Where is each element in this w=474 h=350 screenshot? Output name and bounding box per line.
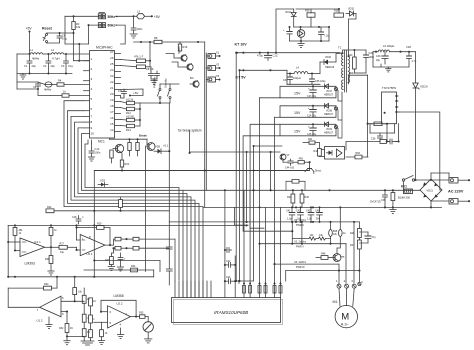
svg-text:10: 10 [91,132,95,136]
svg-text:10: 10 [105,332,108,335]
svg-text:HER107: HER107 [324,93,334,96]
capacitor C39 [381,189,388,208]
opto out row2 [334,107,337,110]
wire primary to TNY [349,75,351,84]
svg-text:5: 5 [110,321,112,325]
wire net8 outer [90,140,175,280]
wire U1.2 output left [8,306,39,308]
diode VD15 [346,8,356,17]
wire col row y281 [236,280,253,282]
svg-text:VD16: VD16 [325,56,332,59]
wire VT5 collector up [339,207,341,253]
svg-text:8: 8 [89,235,91,239]
capacitor C26 [283,26,292,41]
wire opto col 1 [235,53,237,281]
wire U2.2 output [130,316,139,318]
svg-text:10µ: 10µ [60,251,65,254]
wire 5V box outline [287,64,315,84]
wire U2.1 out row [110,244,114,246]
resistor column A r2 [82,303,89,322]
svg-text:470µ: 470µ [257,54,263,58]
svg-text:C3: C3 [61,64,65,68]
svg-text:50Hz +: 50Hz + [108,15,118,19]
shunt reg U6 TL431 [297,27,305,41]
resistor R58 zigzag [316,234,331,240]
wire secondary top to C34 [343,50,367,53]
wire transformer taps to rows [336,86,343,101]
divider R46 [350,222,361,238]
module top pin wires [175,281,211,298]
resistor R23 vertical above rail [119,197,123,211]
wire AC top to bridge [430,173,432,179]
junction caps on rails [291,206,293,208]
divider sense wires [291,221,303,245]
svg-text:49: 49 [70,327,73,330]
resistor R28 down [45,247,53,271]
svg-text:10k: 10k [78,291,83,294]
svg-text:U1.2: U1.2 [37,319,43,323]
power +5V arrow [151,15,153,17]
svg-text:10k: 10k [333,233,338,236]
wire U2.1 feedback loop [104,228,110,246]
svg-text:C46: C46 [315,210,320,213]
resistor column B r2 [89,306,95,323]
wire bus net5 [78,128,187,298]
svg-text:1k: 1k [63,90,66,94]
wire caps to rail [150,67,152,71]
svg-text:Speed: Speed [177,46,181,54]
svg-text:15V: 15V [294,91,301,95]
main rail y170.5 [94,170,309,172]
svg-text:C4: C4 [33,85,37,89]
svg-text:R44: R44 [287,196,292,199]
staircase net d [247,152,254,225]
ground bottom left [64,336,70,344]
capacitor C19 below out [118,253,126,267]
svg-text:K01: K01 [401,185,407,189]
wire loop around resistors [139,103,141,126]
wire x270.6 down [270,152,272,191]
svg-text:C1C: C1C [273,54,278,58]
capacitor C4 row2 [33,82,41,89]
resistor R33 below out [105,248,114,266]
svg-text:PWR U: PWR U [296,224,304,227]
diode VD14 [285,9,296,27]
svg-text:R41: R41 [308,138,313,141]
resistor column A r1 [82,288,90,303]
rail y241 [94,240,169,242]
svg-text:PWR W: PWR W [296,266,305,269]
capacitor C41 below rail [286,207,295,222]
connector AC N [449,199,470,205]
resistor R19 [136,139,139,156]
IC U4 IRAMS10UP60B body [172,298,281,323]
wire U2.2 plus input [91,321,108,323]
resistor R3 pullup [72,15,81,33]
capacitor C37 fb [386,139,399,144]
capacitor C2 [43,54,55,74]
wire row2 to col W [275,116,281,118]
svg-text:R16: R16 [183,45,188,49]
svg-text:22: 22 [110,80,114,84]
svg-text:L1: L1 [30,48,33,52]
capacitor C12 [89,143,101,157]
wire feedback bottom [290,40,330,42]
resistor column A r3 [82,322,90,341]
wire VT5 emitter down [336,262,338,267]
ground below dc minus [390,207,396,213]
wire TNY bottom legs [386,124,388,142]
svg-text:1,0µ: 1,0µ [287,218,292,221]
wire phase V to motor [258,241,346,283]
svg-text:R28: R28 [45,258,50,261]
connector X3 [206,74,220,82]
svg-text:2: 2 [344,279,346,283]
op-amp U2.1 [80,235,105,257]
svg-text:LM393: LM393 [25,262,35,266]
svg-text:+: + [283,29,285,32]
capacitor C14 row2 [307,105,317,118]
svg-text:R45: R45 [305,196,310,199]
capacitor C35 [310,73,327,85]
svg-text:A12 B: A12 B [126,97,133,101]
svg-text:100k: 100k [349,72,355,75]
motor M1 [335,305,357,327]
wire U1.2 left vertical [7,288,9,307]
svg-text:HER108: HER108 [325,66,335,69]
transistor VT3 break [190,76,199,88]
wire reset to IC [73,33,75,61]
wire LM393 inputs [8,241,20,243]
resistor R20 [110,149,113,164]
connector X1 [206,51,220,59]
svg-text:C35 100µ: C35 100µ [315,80,326,83]
svg-text:10k: 10k [76,25,81,29]
capacitor C8 C9 pair [146,67,160,79]
wire bus net4 [75,122,192,297]
svg-text:7: 7 [91,114,93,118]
ground U1.2 [46,314,52,329]
diode VD18 row2 [324,104,334,116]
wire driver mid row [283,161,298,163]
resistor R57 zigzag [292,234,316,240]
wire +5 run [116,15,134,17]
wire 10V rail [237,52,340,54]
resistor R42 [314,143,322,157]
resistor R27 series out [59,242,77,254]
svg-text:4: 4 [120,323,122,327]
resistor column B r1 [89,294,97,306]
resistor column C [100,322,108,340]
svg-text:23: 23 [110,74,114,78]
svg-text:1: 1 [82,237,84,241]
capacitor C31 [283,73,293,85]
svg-text:L2: L2 [51,48,54,52]
wire x94.3 down [93,212,95,277]
wire driver top [190,151,280,153]
svg-text:R38: R38 [334,10,339,13]
rail y271.5 [90,271,160,273]
transistor VT4 break drive [139,134,155,151]
resistor R41 [303,138,319,144]
svg-text:n: n [93,318,95,321]
wire opto return up [367,124,369,157]
svg-text:100µH: 100µH [293,76,301,80]
svg-text:PWR V: PWR V [296,246,304,249]
wire right drop x153.7 [153,270,155,277]
rail mid1 y190.3 [183,189,420,191]
capacitor C23 bootstrap [224,276,236,284]
wire opto col 2 [239,70,241,281]
switch FWD [153,76,162,98]
svg-text:15V: 15V [294,111,301,115]
capacitor C30 [376,52,388,64]
svg-text:+5V: +5V [26,27,33,31]
svg-text:C36: C36 [371,138,376,141]
capacitor C13 row1 [307,85,317,98]
transistor VT1 [178,55,187,62]
resistor R44 between rails [287,190,295,207]
svg-text:n: n [82,216,84,219]
svg-text:MC1: MC1 [98,140,105,144]
svg-text:U/1 1: U/1 1 [34,240,41,244]
rail com y270.6 [286,270,361,283]
15V row 2 box [280,106,336,118]
connector X2 [206,63,220,71]
resistor R5 [50,90,90,98]
resistor R50b [286,180,305,191]
svg-text:7: 7 [126,313,128,317]
svg-text:C39: C39 [381,199,386,202]
svg-text:4MHz: 4MHz [44,88,52,92]
resistor column B r3 [89,323,93,341]
svg-text:C1: C1 [24,64,28,68]
wire rows left edge [279,86,281,98]
rail y225.4 [8,224,246,226]
svg-text:VD3: VD3 [100,179,106,183]
transistor VT8 [113,139,124,153]
svg-text:AC 220V: AC 220V [448,190,464,194]
svg-text:22µ: 22µ [376,59,381,62]
resistor R43 fb [380,140,387,144]
svg-text:1000: 1000 [369,56,375,59]
transformer T1 [338,46,350,93]
svg-text:MC3PHAC: MC3PHAC [96,46,113,50]
capacitor C36 below TNY [370,131,395,142]
wire bus net7 [85,143,179,298]
resistor R51 below TNY [370,122,388,133]
resistor R25 [13,225,23,250]
svg-text:10: 10 [93,300,96,303]
wire bus net2 [68,111,200,298]
wire IC bottom row [110,138,148,140]
svg-text:VT: VT [287,154,291,157]
15V row 3 box [280,124,336,136]
svg-text:TNY275PN: TNY275PN [382,86,396,90]
svg-text:VD21: VD21 [427,189,434,193]
svg-text:15: 15 [110,122,114,126]
capacitor C15 row3 [307,123,317,136]
pin numbers left [91,57,95,136]
resistor R55 on x330 [329,221,338,245]
svg-text:22p: 22p [50,64,55,68]
wire break diode out [166,150,169,152]
svg-text:VD15: VD15 [348,8,355,11]
svg-text:19: 19 [110,98,114,102]
capacitor C1 [24,54,36,74]
wire HV dc to TNY [400,112,442,190]
wire osc row [17,53,30,55]
svg-text:15V: 15V [294,129,301,133]
bridge rectifier VD21 [420,179,442,201]
resistor R48 base [316,252,331,259]
ground osc rail [20,74,26,80]
pin numbers right [110,50,114,132]
svg-text:18: 18 [110,104,114,108]
svg-text:HER107: HER107 [324,131,334,134]
wire IC bottom to C12 [91,140,93,143]
capacitor C6 [57,33,68,42]
wire feedback row [294,26,329,28]
svg-text:4.7µ: 4.7µ [412,60,417,63]
wire top rail to primary [276,9,296,53]
inductor L6 [373,44,416,53]
svg-text:L3: L3 [137,10,140,14]
capacitor C46 below rail [315,207,322,222]
svg-text:5: 5 [91,97,93,101]
wire bus vertical x205 [204,42,206,207]
wire snubber gnd [310,26,312,28]
wire emitter to R21 [121,152,122,156]
svg-text:1: 1 [91,57,93,61]
wire bus net1 [64,101,203,298]
svg-text:47µ: 47µ [372,236,377,239]
shunt resistor pair phase V [258,98,267,298]
resistor R12 [121,107,141,115]
wire bus net6 [82,134,184,298]
svg-text:8: 8 [91,120,93,124]
svg-text:C2: C2 [43,64,47,68]
rail y221.9 [169,221,359,223]
svg-text:BC: BC [190,76,194,80]
svg-text:R35: R35 [139,312,144,315]
opto out row3 [334,125,337,128]
capacitor C29 470u [257,52,278,61]
svg-text:B1/8A 250: B1/8A 250 [398,196,411,200]
svg-text:4R3: 4R3 [299,158,304,161]
svg-text:R30: R30 [44,283,49,286]
meter PA1 [143,317,153,339]
svg-text:KT 10V: KT 10V [235,43,248,47]
svg-text:100n: 100n [95,151,101,155]
svg-text:A13 B1: A13 B1 [126,114,135,118]
diode VD17 row1 [324,84,334,96]
ferrite bead L3 [134,10,152,19]
capacitor C17 at LM393 [46,244,48,255]
ground L6 box [386,67,391,72]
svg-text:C28: C28 [406,45,411,49]
rail mid2 y207.4 [203,206,442,208]
resistor R32 [59,324,73,337]
capacitor C11 [118,89,127,96]
resistor R8 series [154,36,162,44]
svg-text:+5V: +5V [133,91,138,95]
svg-text:LM358: LM358 [114,294,124,298]
resistor R53 [355,152,362,159]
shunt resistor pair phase U [243,190,252,297]
capacitor C43 divider [359,232,376,243]
connector X phase U [336,279,341,306]
rail y210.8 [46,210,169,212]
ground feedback [298,41,304,48]
wire 5V rail [240,69,288,71]
svg-text:60Hz +: 60Hz + [108,24,118,28]
svg-text:7.2v: 7.2v [324,34,330,38]
svg-text:Standby: Standby [164,78,168,88]
svg-text:C13 10µ: C13 10µ [307,95,317,98]
wire bus net3 [71,116,195,297]
svg-text:50v: 50v [316,218,321,221]
svg-text:4: 4 [361,280,363,284]
wire fb right leg [328,27,330,41]
svg-text:R24: R24 [47,206,52,209]
svg-text:SVC471D: SVC471D [370,200,381,203]
wire left edge vertical [7,225,9,275]
op-amp U1.1 LM393 [20,238,45,266]
svg-text:X3: X3 [216,74,220,78]
svg-text:17: 17 [110,110,114,114]
svg-text:R29: R29 [97,223,102,226]
resistor R56 on x340 [339,230,347,237]
wire +5V rail y42 [134,41,154,43]
resistor R18 [128,139,131,156]
wire jumpers left [65,15,98,17]
diode VD5 break [153,144,169,154]
zener 7.2v [319,27,330,41]
svg-text:IRAMS10UP60B: IRAMS10UP60B [214,310,248,315]
wire left vertical [16,54,18,89]
wire 60Hz down [116,25,126,44]
svg-text:C14 10µ: C14 10µ [307,114,317,117]
transistor VT7 [305,162,321,173]
wire net 175 [100,138,175,281]
jumper J1 50Hz [98,13,118,19]
coil L2 [51,48,64,61]
wire HV vertical to VD20 [415,89,417,181]
svg-text:27: 27 [110,50,114,54]
svg-text:C8 C9: C8 C9 [146,67,154,71]
wire row3 to IC [38,89,50,96]
svg-text:6: 6 [110,310,112,314]
wire phase U to motor [246,219,354,283]
resistor R49 [293,158,311,164]
resistor R21 [120,156,130,171]
wire opto bottom right [346,156,368,158]
svg-text:C16 10µ: C16 10µ [307,133,317,136]
rail y260 [94,261,160,272]
wire grid out right [139,238,175,240]
svg-text:7: 7 [37,308,39,312]
ground U2.2 [117,326,123,338]
svg-text:M1: M1 [333,300,338,304]
resistor grid r1 [112,237,139,250]
svg-text:Reset: Reset [42,27,53,31]
wire x145.5 [145,146,147,272]
svg-text:R48: R48 [321,252,326,255]
resistor R16 vertical [178,42,188,51]
diode VD3 [98,179,108,187]
wire phase W to motor [273,261,339,284]
